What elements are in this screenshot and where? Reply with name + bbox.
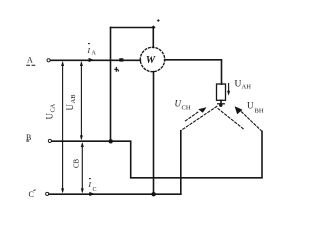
arrowhead U_CH (to node)	[198, 107, 206, 113]
junction dot phase B tap	[109, 139, 113, 143]
label U_BN	[247, 101, 264, 115]
voltage line U_AB with arrows	[80, 61, 83, 140]
label U_CH	[175, 99, 191, 112]
wire W right to resistor	[165, 60, 222, 84]
terminal A	[47, 59, 50, 62]
svg-text:U: U	[247, 101, 254, 111]
label I_A	[87, 44, 97, 57]
junction dot on phase A (marked terminal)	[119, 58, 123, 61]
junction diamond at top loop corner	[151, 25, 155, 29]
arrowhead U_BN (to node)	[235, 106, 243, 114]
label I_C	[88, 179, 97, 193]
label phase A	[26, 56, 35, 66]
wire top loop	[111, 28, 154, 48]
wire voltage-coil tap vertical	[110, 28, 112, 141]
label U_AN	[235, 80, 252, 91]
dashed voltage arrow U_BN line	[242, 112, 262, 131]
svg-text:С: С	[29, 190, 34, 199]
label U_AB rotated	[65, 94, 77, 111]
voltage line U_CB with arrows	[81, 142, 84, 193]
svg-text:I: I	[88, 180, 92, 189]
svg-text:ВН: ВН	[255, 108, 264, 115]
svg-text:I: I	[87, 46, 91, 55]
svg-text:АВ: АВ	[70, 94, 77, 104]
svg-text:U: U	[175, 99, 182, 109]
arrowhead U_AN down	[227, 91, 230, 96]
svg-text:С: С	[93, 187, 97, 193]
label phase C	[29, 190, 36, 199]
dashed voltage arrow U_CH line	[185, 112, 198, 121]
asterisk near voltage coil terminal	[157, 19, 160, 22]
wire resistor lead to node N	[220, 100, 222, 104]
junction dot phase C / W coil	[151, 192, 155, 196]
node N dot	[219, 104, 222, 107]
line U_AN arrow	[228, 83, 230, 92]
wire phase C	[49, 193, 181, 195]
resistor R (artificial neutral, phase A leg)	[217, 84, 226, 100]
svg-text:W: W	[146, 55, 156, 66]
svg-text:U: U	[65, 104, 75, 111]
terminal B	[48, 139, 51, 142]
wire W bottom to phase C	[153, 72, 155, 195]
svg-text:СН: СН	[182, 105, 191, 112]
current arrow I_A on wire	[89, 58, 95, 62]
svg-text:А: А	[27, 56, 33, 65]
wire left leg vertical (C to node)	[180, 131, 182, 194]
svg-text:СВ: СВ	[74, 158, 81, 168]
svg-text:А: А	[92, 51, 97, 57]
svg-text:U: U	[235, 80, 242, 90]
dashed leg node N toward B (short)	[218, 109, 244, 129]
terminal C	[46, 192, 49, 195]
label U_CB rotated	[74, 158, 81, 168]
voltage line U_CA with arrows	[61, 61, 64, 193]
svg-text:U: U	[45, 113, 55, 120]
current arrow I_C on wire	[89, 192, 95, 196]
asterisk near current coil	[114, 67, 118, 72]
svg-text:АН: АН	[242, 84, 252, 91]
wattmeter W circle	[140, 47, 164, 71]
label U_CA rotated	[45, 103, 57, 119]
dashed leg node N toward C	[181, 106, 217, 130]
wire phase B	[52, 131, 262, 178]
svg-text:СА: СА	[50, 103, 57, 112]
label phase B	[26, 133, 31, 142]
wire phase A	[50, 59, 140, 61]
node N bar	[218, 103, 225, 105]
